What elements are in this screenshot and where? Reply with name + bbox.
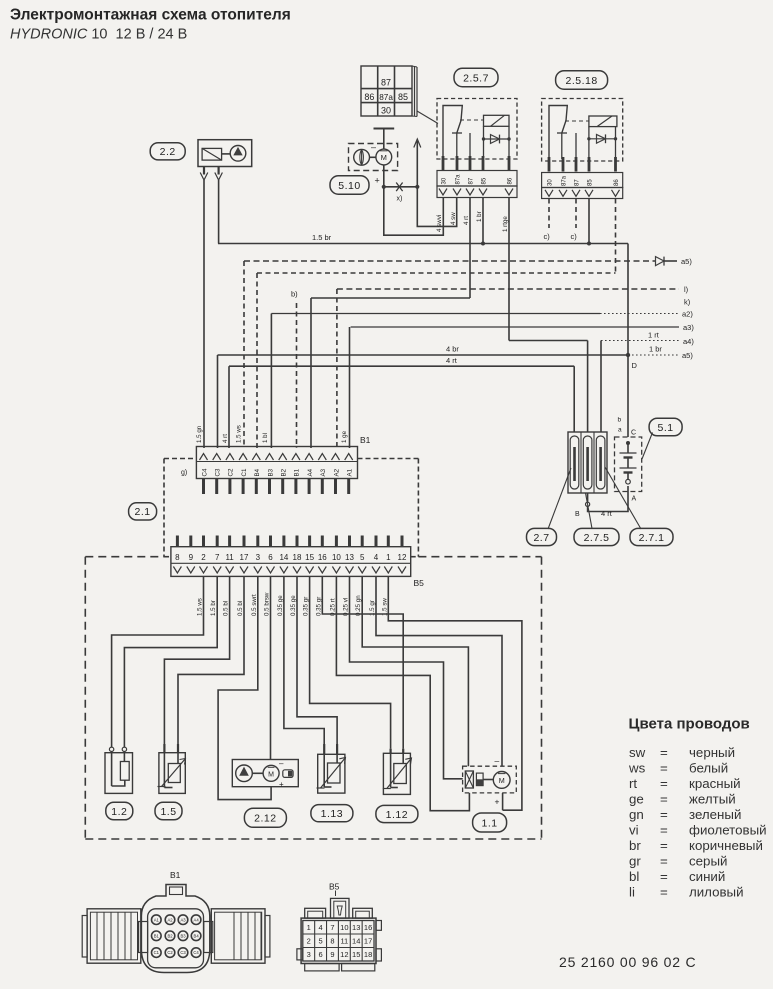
svg-text:a5): a5) — [682, 351, 693, 360]
row a2 — [271, 310, 693, 319]
svg-text:13: 13 — [345, 553, 354, 562]
svg-text:87: 87 — [575, 179, 581, 186]
svg-text:M: M — [268, 771, 274, 778]
svg-text:15: 15 — [352, 950, 360, 959]
wire row l down to B1 pin A2 — [336, 289, 338, 448]
svg-text:=: = — [660, 838, 668, 853]
svg-text:sw: sw — [629, 745, 646, 760]
svg-text:A2: A2 — [167, 917, 173, 922]
svg-text:l): l) — [684, 285, 689, 294]
svg-text:1 ge: 1 ge — [341, 430, 348, 443]
water pump 5.10 dashed box — [349, 144, 398, 171]
label 1.2 — [106, 802, 133, 820]
wire B5 pin15 to sensor 1.12 left — [310, 576, 391, 748]
B1 wire gauge labels — [196, 425, 348, 443]
wire relay 2.5.7 pin 86 down to fuse row — [508, 198, 510, 341]
wire B5 pin1 to motor 1.1 plus — [388, 576, 522, 810]
svg-text:B5: B5 — [329, 882, 340, 892]
svg-text:0.35 gr: 0.35 gr — [303, 597, 310, 616]
svg-text:rt: rt — [629, 776, 637, 791]
svg-text:1.13: 1.13 — [321, 808, 343, 820]
wire row a5 down to B1 pin C1 — [243, 261, 245, 448]
junction node at pump plus — [382, 185, 386, 189]
legend wire colours — [628, 716, 767, 900]
part number — [559, 954, 696, 970]
svg-text:li: li — [629, 885, 635, 900]
svg-text:8: 8 — [330, 936, 334, 945]
burner unit 1.1 — [463, 756, 517, 807]
junction relay2 85 on bus — [587, 242, 591, 246]
svg-text:белый: белый — [689, 761, 728, 776]
svg-text:14: 14 — [279, 553, 288, 562]
svg-text:0.35 ge: 0.35 ge — [290, 595, 297, 616]
svg-text:13: 13 — [352, 923, 360, 932]
svg-text:ws: ws — [628, 761, 646, 776]
label 1.12 — [376, 805, 418, 822]
svg-text:7: 7 — [330, 923, 334, 932]
svg-text:c): c) — [571, 232, 578, 241]
row a3 — [351, 323, 695, 332]
pump 2.2 pins with arrows — [200, 167, 222, 181]
wire B5 pin17 to sensor 1.5 right — [178, 576, 244, 748]
wire B5 pin16 to sensor 1.12 right — [322, 576, 403, 748]
wire B5 pin13 to blower 1.1 left — [350, 576, 463, 778]
label 5.10 — [330, 176, 369, 194]
wire row a2 down to B1 pin B3 — [270, 314, 272, 449]
svg-text:+: + — [495, 797, 500, 807]
wire B5 pin3 to pump 2.12 plus — [218, 576, 271, 799]
svg-text:16: 16 — [364, 923, 372, 932]
svg-text:17: 17 — [364, 936, 372, 945]
fuse node and 4rt link to battery minus — [575, 486, 628, 518]
junction D on battery line — [626, 353, 638, 370]
svg-text:2.1: 2.1 — [135, 506, 151, 518]
junction relay1 85 on bus — [481, 242, 485, 246]
svg-text:лиловый: лиловый — [689, 885, 744, 900]
svg-text:3: 3 — [256, 553, 261, 562]
wire pump plus to relay 2.5.7 pin 30 — [384, 187, 444, 235]
wire motor 1.1 plus down — [502, 793, 504, 810]
svg-text:0.5 brsw: 0.5 brsw — [264, 592, 271, 616]
wire B5 pin18 to sensor 1.13 right — [297, 576, 337, 744]
wire relay 2.5.18 pin 30 stub c) — [544, 199, 551, 242]
row l) — [337, 285, 689, 294]
svg-text:B4: B4 — [194, 933, 200, 938]
svg-text:A3: A3 — [180, 917, 186, 922]
svg-text:=: = — [660, 792, 668, 807]
svg-text:=: = — [660, 869, 668, 884]
label 2.12 — [244, 808, 286, 827]
svg-text:Цвета проводов: Цвета проводов — [629, 716, 750, 733]
svg-text:B4: B4 — [254, 468, 261, 476]
wire B5 pin14 to sensor 1.13 left — [284, 576, 324, 744]
battery 5.1 — [615, 417, 642, 503]
relay 2.5.18 pin stubs — [549, 157, 616, 172]
svg-text:B1: B1 — [170, 870, 181, 880]
fuel metering pump 2.2 — [198, 140, 252, 167]
relay 2.5.7 wire gauge labels — [436, 211, 509, 232]
svg-text:A3: A3 — [320, 468, 327, 476]
svg-text:C1: C1 — [154, 950, 160, 955]
junction node right of x) — [415, 185, 419, 189]
svg-text:0.5 bl: 0.5 bl — [237, 601, 244, 616]
fuel pump unit 2.12 — [232, 759, 298, 789]
svg-text:0.25 gn: 0.25 gn — [355, 595, 362, 616]
svg-text:=: = — [660, 885, 668, 900]
B5 wire gauge labels — [197, 592, 389, 616]
svg-text:–: – — [371, 142, 376, 152]
svg-text:86: 86 — [614, 179, 620, 186]
svg-text:10: 10 — [332, 553, 341, 562]
svg-text:HYDRONIC 10 12 В / 24 В: HYDRONIC 10 12 В / 24 В — [10, 27, 187, 43]
wire relay 2.5.7 pin 85 to 1.5br bus — [482, 198, 484, 244]
svg-text:D: D — [632, 361, 638, 370]
svg-text:g): g) — [181, 470, 187, 477]
leader 2.7.5 — [586, 493, 593, 529]
svg-text:9: 9 — [189, 553, 194, 562]
svg-text:синий: синий — [689, 869, 725, 884]
svg-text:+: + — [375, 176, 380, 186]
svg-text:желтый: желтый — [689, 792, 736, 807]
label 1.13 — [311, 805, 353, 822]
relay 2.5.7 box — [437, 99, 517, 160]
svg-text:a: a — [618, 427, 622, 434]
svg-text:зеленый: зеленый — [689, 807, 741, 822]
svg-text:gn: gn — [629, 807, 644, 822]
svg-text:b): b) — [291, 290, 298, 299]
svg-text:=: = — [660, 807, 668, 822]
svg-text:87a: 87a — [562, 175, 568, 186]
svg-text:5.10: 5.10 — [338, 180, 360, 192]
row a5 with diode — [244, 257, 692, 266]
wire relay 2.5.7 pin 87 to row k — [469, 198, 471, 299]
svg-text:7: 7 — [215, 553, 220, 562]
svg-text:4 sw: 4 sw — [450, 212, 457, 225]
svg-text:2.7.5: 2.7.5 — [584, 532, 610, 544]
wire row down to B1 pin B4 — [256, 273, 258, 448]
svg-text:1 br: 1 br — [649, 345, 662, 354]
wire bus corner down to battery line — [627, 244, 629, 356]
svg-text:14: 14 — [352, 936, 360, 945]
svg-text:A1: A1 — [154, 917, 160, 922]
svg-text:bl: bl — [629, 869, 639, 884]
svg-text:B: B — [575, 511, 580, 518]
svg-text:1.5 br: 1.5 br — [210, 600, 217, 616]
relay 2.5.7 connector strip — [437, 186, 517, 198]
row a4 from fuse 3 — [601, 331, 694, 347]
svg-text:A4: A4 — [307, 468, 314, 476]
svg-text:2: 2 — [201, 553, 206, 562]
title — [10, 7, 291, 24]
svg-text:0.5 swrt: 0.5 swrt — [251, 594, 258, 616]
pump 5.10 plus wire — [375, 165, 384, 187]
connector B5 face view — [301, 882, 376, 964]
wire 2.2 right pin down to 1.5br bus — [218, 180, 220, 244]
battery feed line into fuse block — [627, 355, 629, 437]
wire down to fuse 3 — [600, 341, 602, 433]
svg-text:5.1: 5.1 — [658, 422, 674, 434]
svg-text:4 rt: 4 rt — [463, 216, 470, 225]
temperature sensor 1.13 — [317, 744, 346, 793]
wire B5 pin2 to glow plug 1.2 left — [112, 576, 204, 747]
svg-text:86: 86 — [508, 177, 514, 184]
svg-text:B1: B1 — [360, 435, 371, 445]
label 2.1 — [129, 503, 157, 520]
svg-text:a3): a3) — [683, 323, 694, 332]
svg-text:C1: C1 — [241, 468, 248, 476]
svg-text:B3: B3 — [180, 933, 186, 938]
row A4 to relay 87 — [311, 297, 470, 299]
svg-text:1: 1 — [386, 553, 391, 562]
svg-text:=: = — [660, 776, 668, 791]
svg-text:85: 85 — [398, 92, 408, 102]
svg-text:фиолетовый: фиолетовый — [689, 823, 767, 838]
wire row down to B1 pin A4 — [310, 298, 312, 448]
svg-text:1 rtge: 1 rtge — [502, 216, 509, 232]
svg-text:1 rt: 1 rt — [648, 331, 660, 340]
svg-text:12: 12 — [398, 553, 407, 562]
leader 2.7.1 — [605, 467, 641, 529]
svg-text:87a: 87a — [456, 174, 462, 185]
svg-text:=: = — [660, 823, 668, 838]
svg-text:6: 6 — [268, 553, 273, 562]
relay 2.5.18 connector strip — [542, 188, 623, 199]
bus 1.5 br — [218, 233, 628, 244]
svg-text:C3: C3 — [180, 950, 186, 955]
svg-text:85: 85 — [588, 179, 594, 186]
svg-text:1.1: 1.1 — [482, 817, 498, 829]
svg-text:0.5 bl: 0.5 bl — [223, 601, 230, 616]
label 2.2 — [150, 143, 185, 160]
label 2.5.7 — [454, 68, 498, 86]
connector B1 face view — [139, 870, 213, 973]
svg-text:серый: серый — [689, 854, 727, 869]
svg-text:gr: gr — [629, 854, 641, 869]
svg-text:1 br: 1 br — [476, 211, 483, 222]
wire 2.2 left pin to B1 pin C4 (1.5 gn) — [203, 180, 205, 448]
label 5.1 — [649, 418, 682, 436]
wire x) node to relay 2.5.7 pin 87a — [417, 187, 456, 227]
label 2.5.18 — [556, 71, 608, 89]
svg-text:0.35 gr: 0.35 gr — [315, 597, 322, 616]
svg-text:6: 6 — [319, 950, 323, 959]
row 4br / a5 bottom — [218, 345, 694, 361]
fuse block 2.7 — [568, 432, 607, 493]
svg-text:a4): a4) — [683, 337, 694, 346]
connector B5 side and bottom tabs — [297, 921, 382, 971]
svg-text:10: 10 — [340, 923, 348, 932]
svg-text:1: 1 — [307, 923, 311, 932]
relay 2.5.18 box — [542, 99, 623, 162]
svg-text:1.2: 1.2 — [111, 806, 127, 818]
svg-text:A: A — [632, 496, 637, 503]
svg-text:C: C — [631, 430, 636, 437]
svg-text:C4: C4 — [201, 468, 208, 476]
svg-text:B3: B3 — [267, 468, 274, 476]
wire relay 2.5.18 pin 86 to row to B4 — [615, 199, 617, 274]
relay 2.5.7 pin stubs — [443, 156, 509, 170]
svg-text:x): x) — [397, 196, 403, 203]
svg-text:16: 16 — [318, 553, 327, 562]
svg-text:=: = — [660, 854, 668, 869]
svg-text:30: 30 — [548, 179, 554, 186]
row 86-to-B4 — [257, 272, 616, 274]
svg-text:4 swvi: 4 swvi — [436, 215, 443, 232]
svg-text:C3: C3 — [215, 468, 222, 476]
svg-text:17: 17 — [240, 553, 249, 562]
wire down to fuse 2 — [587, 341, 589, 433]
svg-text:0.35 ge: 0.35 ge — [277, 595, 284, 616]
svg-text:87: 87 — [381, 77, 391, 87]
svg-text:30: 30 — [442, 177, 448, 184]
svg-text:4 rt: 4 rt — [222, 434, 229, 443]
svg-text:A4: A4 — [194, 917, 200, 922]
svg-text:B2: B2 — [281, 468, 288, 476]
svg-text:1.5 ws: 1.5 ws — [197, 598, 204, 616]
connector B1 pin stubs — [204, 479, 349, 495]
svg-text:1.5 gn: 1.5 gn — [196, 425, 203, 443]
svg-text:2: 2 — [307, 936, 311, 945]
svg-text:1.12: 1.12 — [386, 809, 408, 821]
svg-text:–: – — [495, 756, 500, 766]
control unit 2.1 dashed outline — [164, 459, 418, 557]
wire relay 2.5.18 pin 85 to 1.5br bus — [588, 199, 590, 244]
svg-text:11: 11 — [225, 553, 234, 562]
svg-text:Электромонтажная схема отопите: Электромонтажная схема отопителя — [10, 7, 291, 24]
connector strip B1 — [181, 435, 371, 479]
svg-text:красный: красный — [689, 776, 741, 791]
supply arrow up from x) node — [414, 139, 421, 187]
svg-text:8: 8 — [175, 553, 180, 562]
svg-text:3: 3 — [307, 950, 311, 959]
svg-text:c): c) — [544, 232, 551, 241]
svg-text:B1: B1 — [294, 468, 301, 476]
svg-text:25 2160 00 96 02 C: 25 2160 00 96 02 C — [559, 954, 696, 970]
wire B5 pin5 to blower 1.1 flame sensor top — [362, 576, 468, 766]
connector x) link — [384, 183, 418, 203]
svg-text:2.12: 2.12 — [254, 813, 276, 825]
leader 5.1 to battery — [642, 433, 653, 460]
svg-text:85: 85 — [482, 177, 488, 184]
svg-text:9: 9 — [330, 950, 334, 959]
svg-text:+: + — [279, 780, 284, 789]
svg-text:12: 12 — [340, 950, 348, 959]
wire down to fuse 1 — [573, 366, 575, 432]
svg-text:A2: A2 — [333, 468, 340, 476]
svg-text:br: br — [629, 838, 641, 853]
row relay1 86 to fuse 2.7.5 — [509, 340, 588, 342]
subtitle HYDRONIC 10 12V/24V — [10, 27, 187, 43]
relay terminal layout box — [361, 66, 438, 124]
svg-text:4 rt: 4 rt — [446, 356, 458, 365]
wire row a3 down to B1 pin A1 — [349, 327, 351, 448]
temperature sensor 1.12 — [383, 749, 412, 795]
svg-text:–: – — [279, 759, 284, 768]
pump 5.10 minus terminal to chassis — [371, 129, 394, 153]
svg-text:ge: ge — [629, 792, 644, 807]
svg-text:15: 15 — [305, 553, 314, 562]
svg-text:18: 18 — [364, 950, 372, 959]
wire row 4rt down to B1 pin C2 — [228, 366, 230, 448]
leader 2.7 — [548, 468, 571, 529]
label 2.7.5 — [574, 528, 619, 545]
svg-text:87: 87 — [469, 177, 475, 184]
temperature sensor 1.5 — [158, 744, 186, 793]
svg-text:C4: C4 — [193, 950, 199, 955]
svg-text:4 br: 4 br — [446, 345, 459, 354]
svg-text:5: 5 — [360, 553, 365, 562]
heater unit dashed enclosure — [85, 557, 541, 839]
svg-text:A1: A1 — [347, 468, 354, 476]
svg-text:M: M — [499, 776, 505, 785]
svg-text:2.7: 2.7 — [533, 532, 549, 544]
svg-text:C2: C2 — [167, 950, 173, 955]
label 2.7.1 — [630, 528, 673, 545]
svg-text:18: 18 — [293, 553, 302, 562]
wire B5 pin6 to pump 2.12 top — [270, 576, 272, 759]
svg-text:1 bl: 1 bl — [262, 433, 269, 443]
svg-text:a2): a2) — [682, 310, 693, 319]
connector B5 pin grid — [303, 921, 374, 962]
svg-text:M: M — [381, 153, 387, 162]
svg-text:86: 86 — [364, 92, 374, 102]
svg-text:11: 11 — [340, 936, 348, 945]
relay 2.5.18 terminal label strip — [542, 173, 623, 188]
wire relay 2.5.18 pin 87 stub c) — [571, 199, 578, 242]
connector B1 pin holes — [152, 915, 201, 957]
wire B5 pin10 to blower 1.1 flame sensor bottom — [336, 576, 469, 810]
svg-text:a5): a5) — [681, 257, 692, 266]
svg-text:B1: B1 — [154, 933, 160, 938]
connector strip B5 — [171, 536, 424, 589]
glow plug 1.2 — [105, 747, 133, 793]
svg-text:2.5.18: 2.5.18 — [565, 75, 597, 87]
svg-text:2.5.7: 2.5.7 — [463, 72, 489, 84]
wire row 4br down to B1 pin C3 — [217, 355, 219, 448]
wire B5 pin4 to motor 1.1 minus — [376, 576, 502, 766]
svg-text:4 rt: 4 rt — [601, 509, 613, 518]
svg-text:C2: C2 — [228, 468, 235, 476]
row 4rt to fuse 2.7 — [229, 356, 574, 366]
wire B5 pin7 to glow plug 1.2 right — [124, 576, 217, 747]
svg-text:B2: B2 — [167, 933, 173, 938]
connector B1 left latch wing — [82, 909, 141, 963]
connector B1 right latch wing — [211, 909, 270, 963]
relay 2.5.7 terminal label strip — [437, 171, 517, 187]
svg-text:87a: 87a — [379, 93, 393, 102]
svg-text:=: = — [660, 761, 668, 776]
svg-text:4: 4 — [374, 553, 379, 562]
label 2.7 — [527, 528, 557, 545]
svg-text:b: b — [618, 417, 622, 424]
svg-text:=: = — [660, 745, 668, 760]
svg-text:4: 4 — [319, 923, 323, 932]
svg-text:B5: B5 — [414, 578, 425, 588]
wire b) down to B1 pin B1 — [296, 303, 298, 448]
svg-text:коричневый: коричневый — [689, 838, 763, 853]
svg-text:30: 30 — [381, 106, 391, 116]
svg-text:2.2: 2.2 — [160, 146, 176, 158]
svg-text:vi: vi — [629, 823, 639, 838]
svg-text:k): k) — [684, 298, 691, 307]
svg-text:5: 5 — [319, 936, 323, 945]
wire B5 pin11 to sensor 1.5 left — [164, 576, 229, 748]
svg-text:1.5 br: 1.5 br — [312, 233, 332, 242]
svg-text:черный: черный — [689, 745, 735, 760]
label 1.1 — [473, 813, 507, 832]
label 1.5 — [155, 802, 182, 820]
svg-text:2.7.1: 2.7.1 — [639, 532, 665, 544]
